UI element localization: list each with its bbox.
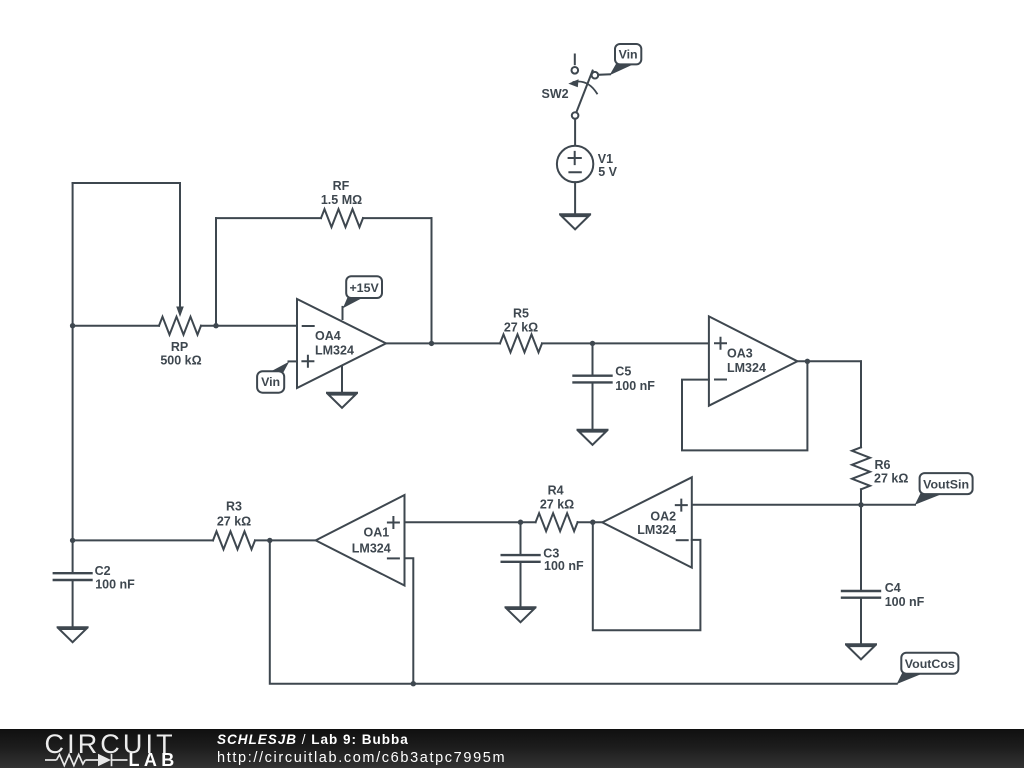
node dot left rail / R3 row	[70, 538, 75, 543]
svg-text:OA3: OA3	[727, 347, 753, 361]
wire switch pole to V1	[574, 119, 576, 146]
node dot C3 / R4 / OA1+	[518, 520, 523, 525]
flag VoutSin	[915, 473, 973, 505]
voltage source V1	[557, 146, 593, 182]
logo diode triangle	[98, 754, 111, 766]
resistor RF	[216, 209, 432, 227]
svg-text:LAB: LAB	[129, 750, 179, 768]
wire OA3 output	[797, 360, 861, 362]
CircuitLab logo schematic glyph: wire, resistor, diode	[45, 754, 128, 766]
svg-text:R5: R5	[513, 307, 529, 321]
flag Vin (OA4 non-inverting input)	[257, 361, 297, 392]
flag Vin (top, at switch)	[598, 44, 641, 75]
svg-text:1.5 MΩ: 1.5 MΩ	[321, 193, 362, 207]
svg-text:5 V: 5 V	[598, 165, 617, 179]
node dot R4 / OA2 output	[590, 520, 595, 525]
svg-text:R6: R6	[875, 458, 891, 472]
switch SW2 pole circle	[572, 112, 579, 119]
svg-text:LM324: LM324	[727, 361, 766, 375]
resistor R5	[500, 334, 709, 352]
svg-text:100 nF: 100 nF	[544, 559, 584, 573]
op-amp OA1 (left-pointing)	[316, 495, 405, 586]
node dot R3 / OA1 output	[267, 538, 272, 543]
wire OA2 feedback loop	[593, 522, 701, 630]
potentiometer RP wiper arrow	[176, 183, 184, 317]
svg-text:V1: V1	[598, 152, 613, 166]
svg-text:100 nF: 100 nF	[615, 379, 655, 393]
svg-text:100 nF: 100 nF	[95, 578, 135, 592]
svg-text:VoutSin: VoutSin	[923, 477, 969, 491]
node dot OA4 output / RF	[429, 341, 434, 346]
OA4 power pin	[342, 307, 344, 319]
svg-text:Vin: Vin	[261, 375, 280, 389]
svg-text:Vin: Vin	[619, 48, 638, 62]
wire RF left vertical	[215, 218, 217, 326]
svg-text:100 nF: 100 nF	[885, 595, 925, 609]
wire top loop horizontal (RP wiper)	[73, 182, 180, 184]
svg-text:R3: R3	[226, 500, 242, 514]
wire OA4 output to R5	[386, 342, 500, 344]
svg-text:C5: C5	[615, 364, 631, 378]
flag VoutCos	[897, 653, 959, 684]
svg-text:+15V: +15V	[349, 281, 379, 295]
resistor R3	[73, 531, 316, 549]
ground below C4	[846, 644, 876, 659]
svg-text:SW2: SW2	[542, 87, 569, 101]
wire OA1 feedback loop	[270, 540, 897, 683]
junction dot OA1 feedback / VoutCos wire	[411, 681, 416, 686]
op-amp OA4	[297, 299, 386, 388]
ground below OA4	[327, 393, 357, 408]
svg-text:OA4: OA4	[315, 329, 341, 343]
svg-text:LM324: LM324	[315, 343, 354, 357]
svg-text:OA2: OA2	[650, 510, 676, 524]
switch SW2 throw arc arrow	[568, 79, 597, 93]
flag +15V	[343, 276, 382, 308]
op-amp OA3	[709, 316, 798, 405]
svg-text:27 kΩ: 27 kΩ	[874, 471, 908, 485]
svg-text:27 kΩ: 27 kΩ	[217, 515, 251, 529]
capacitor C2	[54, 573, 92, 627]
switch SW2 terminal circle top	[572, 67, 579, 74]
svg-text:VoutCos: VoutCos	[905, 657, 955, 671]
ground below C2	[58, 627, 88, 642]
ground below C5	[578, 430, 608, 445]
resistor R4	[536, 513, 603, 531]
node dot left rail / RP	[70, 323, 75, 328]
svg-text:R4: R4	[548, 484, 564, 498]
wire left rail vertical	[72, 183, 74, 572]
svg-text:500 kΩ: 500 kΩ	[160, 354, 201, 368]
svg-text:C2: C2	[95, 564, 111, 578]
capacitor C3	[502, 522, 540, 607]
wire V1 to ground	[574, 182, 576, 214]
capacitor C5	[574, 343, 612, 429]
wire OA1 non-inverting input row	[405, 521, 536, 523]
svg-text:C4: C4	[885, 581, 901, 595]
svg-text:OA1: OA1	[364, 526, 390, 540]
node dot RP right / RF branch	[213, 323, 218, 328]
node dot R6 / C4 / VoutSin	[858, 502, 863, 507]
op-amp OA2 (left-pointing)	[602, 477, 692, 567]
wire VoutSin row	[692, 504, 915, 506]
node dot C5 top	[590, 341, 595, 346]
svg-text:LM324: LM324	[637, 523, 676, 537]
switch SW2 lever	[576, 71, 592, 113]
resistor R6 (vertical)	[852, 361, 870, 505]
potentiometer RP body	[73, 317, 297, 335]
capacitor C4	[842, 505, 880, 644]
OA4 ground pin	[341, 367, 343, 392]
svg-text:RP: RP	[171, 340, 188, 354]
wire OA3 inverting input feedback loop	[682, 361, 807, 450]
switch SW2 terminal circle right	[592, 72, 599, 79]
switch SW2 top terminal stub	[574, 55, 576, 65]
ground below C3	[506, 607, 536, 622]
svg-text:27 kΩ: 27 kΩ	[504, 321, 538, 335]
ground below V1	[560, 214, 590, 229]
svg-text:LM324: LM324	[352, 541, 391, 555]
wire RF right vertical to OA4 output	[431, 218, 433, 343]
node dot OA3 output / feedback	[805, 359, 810, 364]
svg-text:RF: RF	[333, 179, 350, 193]
svg-text:27 kΩ: 27 kΩ	[540, 497, 574, 511]
